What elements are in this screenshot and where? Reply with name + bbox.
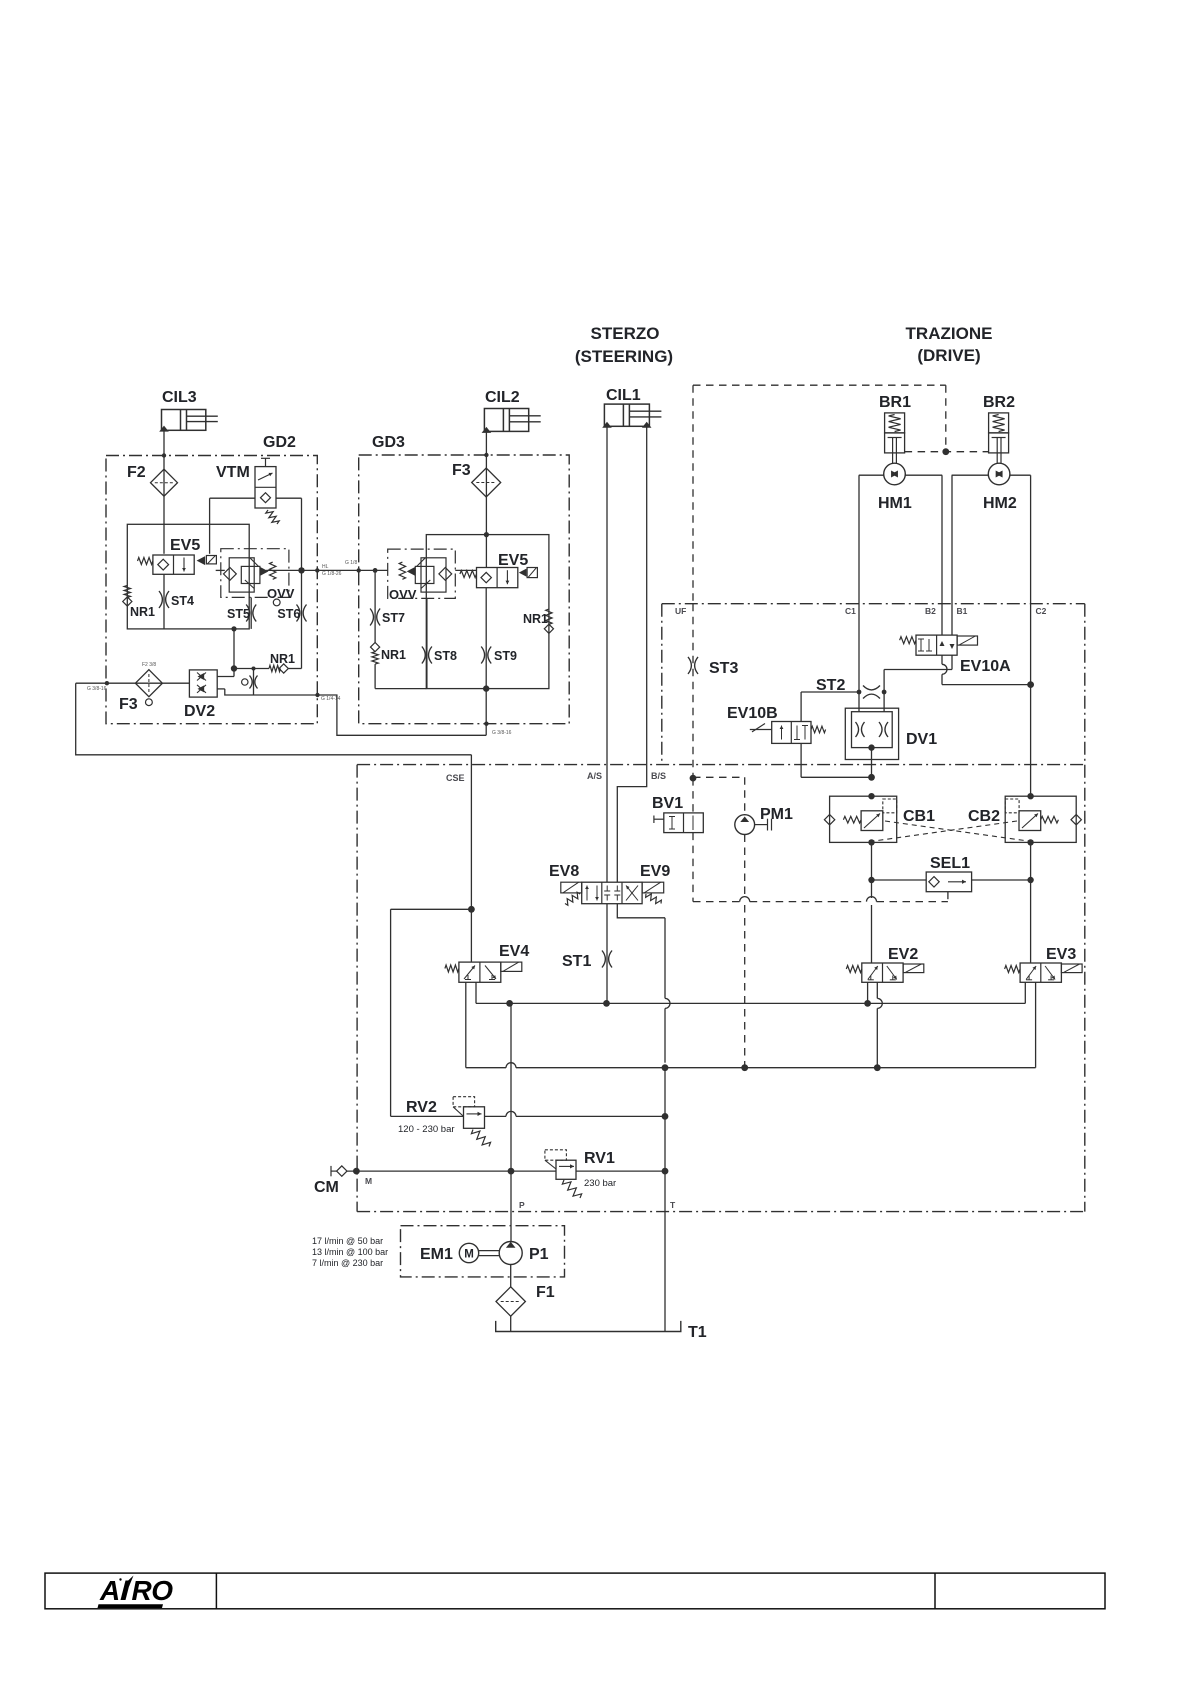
- svg-text:ST6: ST6: [277, 607, 300, 621]
- svg-text:HM2: HM2: [983, 495, 1017, 512]
- svg-text:EV5: EV5: [498, 552, 528, 569]
- svg-text:ST5: ST5: [227, 607, 250, 621]
- svg-text:B1: B1: [957, 606, 968, 616]
- svg-text:DV1: DV1: [906, 731, 937, 748]
- svg-text:T1: T1: [688, 1324, 707, 1341]
- svg-text:ST4: ST4: [171, 594, 194, 608]
- svg-text:SEL1: SEL1: [930, 855, 970, 872]
- svg-text:F1: F1: [536, 1284, 555, 1301]
- svg-text:CSE: CSE: [446, 773, 465, 783]
- svg-text:NR1: NR1: [523, 612, 548, 626]
- svg-text:BV1: BV1: [652, 795, 683, 812]
- svg-text:ST8: ST8: [434, 649, 457, 663]
- svg-text:ST3: ST3: [709, 660, 738, 677]
- svg-text:CB1: CB1: [903, 808, 935, 825]
- svg-text:EV5: EV5: [170, 537, 200, 554]
- svg-text:BR1: BR1: [879, 394, 911, 411]
- svg-text:VTM: VTM: [216, 464, 250, 481]
- svg-text:CIL1: CIL1: [606, 387, 641, 404]
- svg-text:OVV: OVV: [267, 586, 295, 601]
- svg-text:CM: CM: [314, 1179, 339, 1196]
- svg-text:A/S: A/S: [587, 771, 602, 781]
- svg-text:EV9: EV9: [640, 863, 670, 880]
- svg-text:T: T: [670, 1200, 676, 1210]
- svg-text:PM1: PM1: [760, 806, 793, 823]
- svg-text:M: M: [365, 1176, 372, 1186]
- svg-text:G 1/4-14: G 1/4-14: [321, 696, 341, 702]
- svg-text:RO: RO: [132, 1575, 174, 1606]
- svg-text:F2 3/8: F2 3/8: [142, 662, 156, 668]
- svg-text:G 1/8-26: G 1/8-26: [322, 571, 342, 577]
- svg-text:B/S: B/S: [651, 771, 666, 781]
- svg-text:HM1: HM1: [878, 495, 912, 512]
- svg-text:EV10A: EV10A: [960, 658, 1011, 675]
- svg-text:EV4: EV4: [499, 943, 529, 960]
- svg-text:EV3: EV3: [1046, 946, 1076, 963]
- svg-text:ST9: ST9: [494, 649, 517, 663]
- svg-text:HL: HL: [322, 564, 329, 570]
- svg-text:ST2: ST2: [816, 677, 845, 694]
- svg-text:A: A: [99, 1575, 120, 1606]
- svg-text:STERZO: STERZO: [591, 324, 660, 343]
- svg-text:RV2: RV2: [406, 1099, 437, 1116]
- svg-text:GD3: GD3: [372, 434, 405, 451]
- svg-text:NR1: NR1: [381, 648, 406, 662]
- svg-text:B2: B2: [925, 606, 936, 616]
- svg-text:C2: C2: [1036, 606, 1047, 616]
- svg-text:P1: P1: [529, 1246, 549, 1263]
- svg-text:ST7: ST7: [382, 611, 405, 625]
- svg-text:G 3/8-16: G 3/8-16: [492, 730, 512, 736]
- svg-text:(STEERING): (STEERING): [575, 347, 673, 366]
- svg-text:F2: F2: [127, 464, 146, 481]
- svg-text:GD2: GD2: [263, 434, 296, 451]
- svg-text:CB2: CB2: [968, 808, 1000, 825]
- svg-text:P: P: [519, 1200, 525, 1210]
- svg-text:C1: C1: [845, 606, 856, 616]
- svg-text:EV8: EV8: [549, 863, 579, 880]
- svg-text:F3: F3: [119, 696, 138, 713]
- svg-text:ST1: ST1: [562, 953, 591, 970]
- svg-text:RV1: RV1: [584, 1150, 615, 1167]
- svg-text:UF: UF: [675, 606, 686, 616]
- svg-text:CIL3: CIL3: [162, 389, 197, 406]
- svg-text:F3: F3: [452, 462, 471, 479]
- svg-text:EV2: EV2: [888, 946, 918, 963]
- svg-text:NR1: NR1: [130, 605, 155, 619]
- svg-text:BR2: BR2: [983, 394, 1015, 411]
- svg-text:DV2: DV2: [184, 703, 215, 720]
- svg-text:M: M: [464, 1249, 474, 1261]
- svg-text:CIL2: CIL2: [485, 389, 520, 406]
- svg-text:230 bar: 230 bar: [584, 1178, 616, 1189]
- svg-text:EV10B: EV10B: [727, 705, 778, 722]
- svg-text:120 - 230 bar: 120 - 230 bar: [398, 1124, 455, 1135]
- svg-text:TRAZIONE: TRAZIONE: [906, 324, 993, 343]
- svg-text:13 l/min @ 100 bar: 13 l/min @ 100 bar: [312, 1247, 388, 1257]
- svg-text:G 3/8-16: G 3/8-16: [87, 686, 107, 692]
- svg-text:(DRIVE): (DRIVE): [917, 346, 980, 365]
- svg-text:7 l/min @ 230 bar: 7 l/min @ 230 bar: [312, 1258, 383, 1268]
- svg-text:NR1: NR1: [270, 652, 295, 666]
- svg-text:17 l/min @ 50 bar: 17 l/min @ 50 bar: [312, 1236, 383, 1246]
- svg-text:EM1: EM1: [420, 1246, 453, 1263]
- svg-text:G 1/8: G 1/8: [345, 560, 357, 566]
- svg-text:OVV: OVV: [389, 587, 417, 602]
